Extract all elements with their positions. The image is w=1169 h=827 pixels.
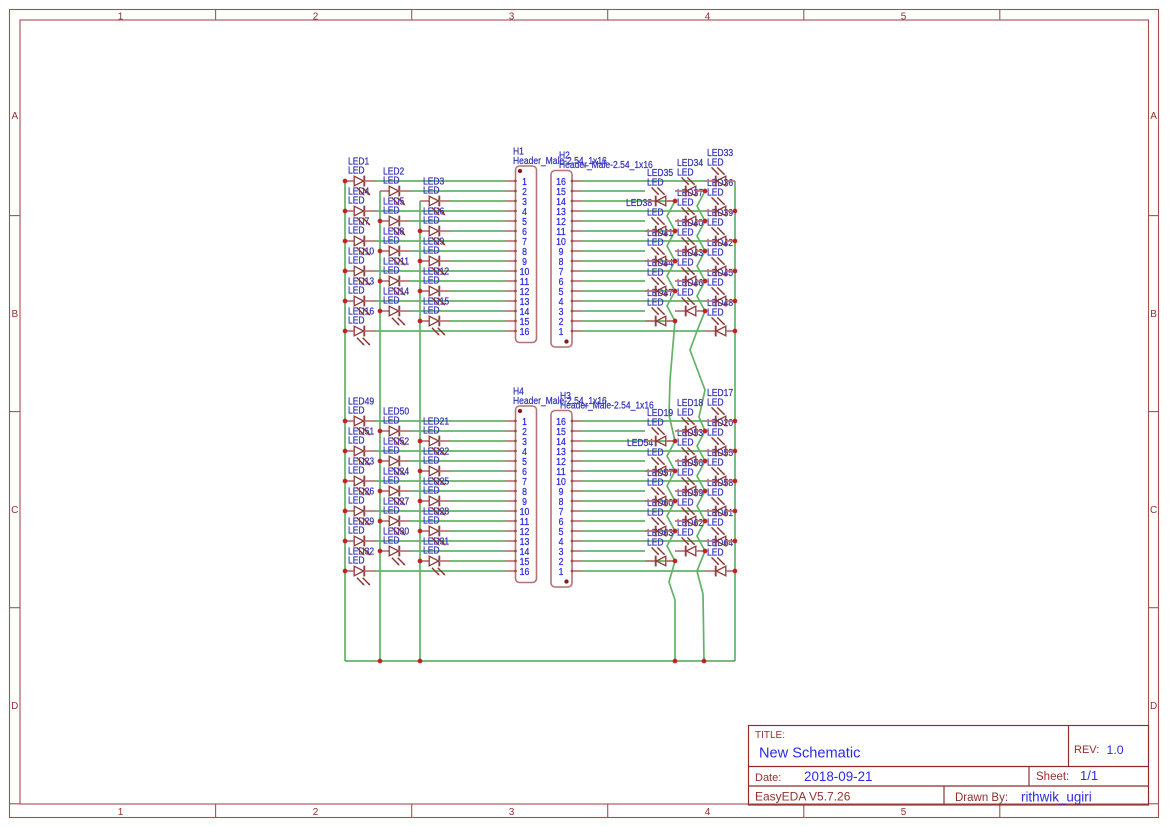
svg-text:LED: LED — [383, 476, 400, 487]
svg-text:8: 8 — [559, 257, 564, 268]
junction col2 bottom pin5 — [378, 459, 383, 464]
junction colA bottom pin14 — [673, 439, 678, 444]
junction col1 top pin4 — [343, 209, 348, 214]
junction col2 top pin11 — [378, 279, 383, 284]
junction col1 bottom pin16 — [343, 569, 348, 574]
svg-text:3: 3 — [559, 547, 564, 558]
svg-text:B: B — [1150, 309, 1157, 320]
svg-text:LED: LED — [383, 236, 400, 247]
svg-text:LED: LED — [677, 288, 694, 299]
junction col3 bottom pin6 — [418, 469, 423, 474]
wire top row pin8 left — [410, 250, 506, 252]
LED LED11 — [380, 256, 410, 295]
wire top row pin2 left — [410, 190, 506, 192]
wire bottom row pin13 left — [375, 540, 506, 542]
LED LED53 — [675, 428, 705, 466]
LED LED13 — [345, 276, 375, 315]
svg-text:3: 3 — [559, 307, 564, 318]
connector H3 Header_Male-2.54_1x16 — [551, 391, 654, 587]
wire bottom row pin8 left — [410, 490, 506, 492]
LED LED30 — [380, 526, 410, 565]
junction colA bottom bus — [673, 659, 678, 664]
svg-text:LED: LED — [383, 446, 400, 457]
svg-text:LED: LED — [677, 258, 694, 269]
svg-text:LED: LED — [707, 428, 724, 439]
svg-text:LED: LED — [707, 188, 724, 199]
wire bottom row pin9 left — [450, 500, 506, 502]
svg-text:15: 15 — [556, 427, 566, 438]
svg-text:16: 16 — [556, 177, 566, 188]
svg-text:REV:: REV: — [1074, 744, 1099, 756]
wire top row pin10 right — [582, 270, 705, 272]
junction col2 bottom bus — [378, 659, 383, 664]
svg-text:LED: LED — [647, 178, 664, 189]
LED LED55 — [705, 448, 735, 486]
wire bottom row pin11 right — [582, 520, 645, 522]
LED LED32 — [345, 546, 375, 585]
svg-text:13: 13 — [556, 447, 566, 458]
svg-text:10: 10 — [556, 477, 566, 488]
junction colC bottom pin1 — [733, 569, 738, 574]
LED LED51 — [345, 426, 375, 465]
svg-text:5: 5 — [901, 11, 907, 22]
wire bottom row pin15 left — [450, 560, 506, 562]
svg-text:1: 1 — [118, 807, 124, 818]
svg-text:LED: LED — [647, 238, 664, 249]
LED LED16 — [345, 306, 375, 345]
svg-text:9: 9 — [559, 247, 564, 258]
junction colC bottom pin13 — [733, 449, 738, 454]
LED LED47 — [645, 288, 675, 326]
svg-text:2: 2 — [313, 11, 319, 22]
junction col2 top pin5 — [378, 219, 383, 224]
junction colA top pin8 — [673, 259, 678, 264]
LED LED26 — [345, 486, 375, 525]
svg-text:1: 1 — [559, 327, 564, 338]
wire top row pin12 left — [450, 290, 506, 292]
junction colC top pin4 — [733, 299, 738, 304]
svg-text:LED: LED — [647, 418, 664, 429]
svg-text:LED: LED — [647, 478, 664, 489]
svg-text:16: 16 — [520, 567, 530, 578]
svg-text:LED: LED — [348, 226, 365, 237]
LED LED46 — [675, 278, 705, 316]
LED LED44 — [645, 258, 675, 296]
svg-text:LED: LED — [423, 306, 440, 317]
junction col3 top pin15 — [418, 319, 423, 324]
LED LED12 — [420, 266, 450, 305]
svg-text:D: D — [1150, 701, 1157, 712]
LED LED25 — [420, 476, 450, 515]
svg-text:C: C — [11, 505, 18, 516]
junction col1 bottom pin1 — [343, 419, 348, 424]
wire bottom row pin2 right — [582, 430, 645, 432]
svg-text:C: C — [1150, 505, 1157, 516]
wire bottom row pin1 right — [582, 420, 705, 422]
svg-text:LED: LED — [677, 168, 694, 179]
svg-text:LED: LED — [348, 256, 365, 267]
LED LED28 — [420, 506, 450, 545]
svg-text:LED: LED — [707, 518, 724, 529]
svg-text:LED: LED — [348, 196, 365, 207]
LED LED36 — [705, 178, 735, 216]
junction colB bottom pin6 — [703, 519, 708, 524]
wire bottom row pin7 right — [582, 480, 705, 482]
wire top row pin7 right — [582, 240, 705, 242]
junction col2 bottom pin2 — [378, 429, 383, 434]
wire bottom row pin6 left — [450, 470, 506, 472]
svg-text:LED: LED — [707, 308, 724, 319]
svg-text:Sheet:: Sheet: — [1036, 771, 1069, 783]
svg-text:8: 8 — [559, 497, 564, 508]
wire top row pin13 right — [582, 300, 705, 302]
wire bottom row pin16 left — [375, 570, 506, 572]
LED LED58 — [705, 478, 735, 516]
wire bottom row pin3 right — [582, 440, 675, 442]
wire top row pin15 left — [450, 320, 506, 322]
LED LED43 — [675, 248, 705, 286]
junction colB top pin9 — [703, 249, 708, 254]
wire bottom row pin5 left — [410, 460, 506, 462]
connector H1 Header_Male-2.54_1x16 — [506, 146, 608, 342]
svg-text:3: 3 — [509, 807, 515, 818]
wire top row pin15 right — [582, 320, 675, 322]
LED LED56 — [675, 458, 705, 496]
junction col1 top pin7 — [343, 239, 348, 244]
svg-text:LED: LED — [707, 488, 724, 499]
junction col2 bottom pin11 — [378, 519, 383, 524]
svg-text:LED: LED — [383, 206, 400, 217]
LED LED48 — [705, 298, 735, 336]
svg-text:LED: LED — [677, 438, 694, 449]
svg-text:LED: LED — [677, 498, 694, 509]
wire bottom bus — [345, 660, 735, 662]
svg-text:LED: LED — [383, 266, 400, 277]
junction colB top pin3 — [703, 309, 708, 314]
wire bottom row pin10 left — [375, 510, 506, 512]
junction colA bottom pin8 — [673, 499, 678, 504]
junction col3 top pin6 — [418, 229, 423, 234]
junction col3 bottom pin12 — [418, 529, 423, 534]
LED LED63 — [645, 528, 675, 566]
svg-text:4: 4 — [705, 11, 711, 22]
LED LED3 — [420, 176, 450, 215]
LED LED14 — [380, 286, 410, 325]
junction colB top pin12 — [703, 219, 708, 224]
wire bottom row pin5 right — [582, 460, 645, 462]
LED LED7 — [345, 216, 375, 255]
wire bottom row pin6 right — [582, 470, 675, 472]
junction col1 bottom pin10 — [343, 509, 348, 514]
svg-text:6: 6 — [559, 277, 564, 288]
wire bottom row pin8 right — [582, 490, 645, 492]
svg-text:LED: LED — [677, 528, 694, 539]
svg-text:7: 7 — [559, 507, 564, 518]
svg-text:13: 13 — [556, 207, 566, 218]
wire bottom row pin14 left — [410, 550, 506, 552]
wire bottom row pin16 right — [582, 570, 705, 572]
svg-text:1/1: 1/1 — [1080, 768, 1098, 783]
wire top row pin14 right — [582, 310, 645, 312]
LED LED60 — [645, 498, 675, 536]
wire top row pin1 right — [582, 180, 705, 182]
LED LED37 — [675, 188, 705, 226]
junction colA top pin5 — [673, 289, 678, 294]
svg-text:LED: LED — [348, 466, 365, 477]
junction colB top pin15 — [703, 189, 708, 194]
svg-text:LED: LED — [647, 208, 664, 219]
LED LED4 — [345, 186, 375, 225]
junction col3 bottom bus — [418, 659, 423, 664]
svg-text:Header_Male-2.54_1x16: Header_Male-2.54_1x16 — [559, 160, 653, 171]
svg-text:1.0: 1.0 — [1107, 743, 1124, 757]
LED LED41 — [645, 228, 675, 266]
junction col3 top pin12 — [418, 289, 423, 294]
wire net bus col1 (left) — [344, 181, 346, 661]
svg-text:LED: LED — [707, 218, 724, 229]
svg-text:LED: LED — [423, 486, 440, 497]
LED LED1 — [345, 156, 375, 195]
svg-text:7: 7 — [559, 267, 564, 278]
svg-text:LED: LED — [348, 316, 365, 327]
LED LED33 — [705, 148, 735, 186]
wire top row pin5 left — [410, 220, 506, 222]
LED LED20 — [705, 418, 735, 456]
svg-text:15: 15 — [556, 187, 566, 198]
svg-text:LED: LED — [707, 398, 724, 409]
LED LED40 — [675, 218, 705, 256]
svg-text:D: D — [11, 701, 18, 712]
junction colA bottom pin5 — [673, 529, 678, 534]
svg-text:LED: LED — [423, 546, 440, 557]
junction colC top pin1 — [733, 329, 738, 334]
LED LED17 — [705, 388, 735, 426]
wire net bus colA (right) — [667, 201, 675, 661]
svg-text:LED: LED — [707, 458, 724, 469]
svg-text:1: 1 — [559, 567, 564, 578]
LED LED35 — [645, 168, 675, 206]
junction colA bottom pin11 — [673, 469, 678, 474]
LED LED45 — [705, 268, 735, 306]
svg-text:LED: LED — [348, 496, 365, 507]
junction colB bottom pin12 — [703, 459, 708, 464]
svg-text:5: 5 — [901, 807, 907, 818]
wire net bus col2 (left) — [379, 191, 381, 661]
wire top row pin14 left — [410, 310, 506, 312]
svg-text:LED: LED — [423, 186, 440, 197]
junction colC bottom pin4 — [733, 539, 738, 544]
junction colA bottom pin2 — [673, 559, 678, 564]
svg-text:New Schematic: New Schematic — [759, 746, 860, 762]
svg-text:LED: LED — [677, 228, 694, 239]
wire top row pin3 left — [450, 200, 506, 202]
svg-text:4: 4 — [705, 807, 711, 818]
junction colB top pin6 — [703, 279, 708, 284]
LED LED15 — [420, 296, 450, 335]
svg-text:5: 5 — [559, 287, 564, 298]
svg-text:Drawn By:: Drawn By: — [955, 792, 1008, 804]
LED LED21 — [420, 416, 450, 455]
junction colA top pin2 — [673, 319, 678, 324]
svg-text:LED: LED — [647, 538, 664, 549]
wire bottom row pin12 right — [582, 530, 675, 532]
wire bottom row pin4 left — [375, 450, 506, 452]
wire bottom row pin3 left — [450, 440, 506, 442]
svg-text:1: 1 — [118, 11, 124, 22]
LED LED38 — [626, 198, 675, 236]
wire top row pin13 left — [375, 300, 506, 302]
LED LED52 — [380, 436, 410, 475]
wire top row pin6 right — [582, 230, 675, 232]
svg-text:LED: LED — [348, 406, 365, 417]
svg-text:4: 4 — [559, 537, 564, 548]
svg-text:LED: LED — [647, 298, 664, 309]
svg-text:5: 5 — [559, 527, 564, 538]
wire top row pin16 right — [582, 330, 705, 332]
wire top row pin6 left — [450, 230, 506, 232]
LED LED34 — [675, 158, 705, 196]
wire bottom row pin12 left — [450, 530, 506, 532]
svg-text:B: B — [11, 309, 18, 320]
svg-text:LED: LED — [383, 536, 400, 547]
junction colB bottom pin9 — [703, 489, 708, 494]
junction col3 bottom pin9 — [418, 499, 423, 504]
svg-text:LED: LED — [383, 296, 400, 307]
title block — [749, 726, 1149, 806]
wire bottom row pin15 right — [582, 560, 675, 562]
junction col1 top pin1 — [343, 179, 348, 184]
junction col1 top pin16 — [343, 329, 348, 334]
junction colC top pin13 — [733, 209, 738, 214]
wire top row pin10 left — [375, 270, 506, 272]
svg-text:16: 16 — [556, 417, 566, 428]
wire top row pin12 right — [582, 290, 675, 292]
wire bottom row pin9 right — [582, 500, 675, 502]
wire top row pin4 left — [375, 210, 506, 212]
svg-text:LED: LED — [707, 248, 724, 259]
wire top row pin8 right — [582, 250, 645, 252]
LED LED39 — [705, 208, 735, 246]
junction col3 bottom pin15 — [418, 559, 423, 564]
wire top row pin5 right — [582, 220, 645, 222]
LED LED57 — [645, 468, 675, 506]
junction col3 top pin9 — [418, 259, 423, 264]
svg-text:12: 12 — [556, 457, 566, 468]
svg-text:LED: LED — [707, 548, 724, 559]
svg-text:LED: LED — [647, 508, 664, 519]
svg-text:LED: LED — [423, 456, 440, 467]
LED LED59 — [675, 488, 705, 526]
LED LED19 — [645, 408, 675, 446]
svg-text:12: 12 — [556, 217, 566, 228]
svg-text:LED: LED — [423, 516, 440, 527]
wire net bus col3 (left) — [419, 201, 421, 661]
wire top row pin9 right — [582, 260, 675, 262]
junction colB bottom pin3 — [703, 549, 708, 554]
svg-text:LED: LED — [383, 506, 400, 517]
LED LED24 — [380, 466, 410, 505]
wire top row pin3 right — [582, 200, 675, 202]
LED LED9 — [420, 236, 450, 275]
svg-text:4: 4 — [559, 297, 564, 308]
wire top row pin2 right — [582, 190, 645, 192]
svg-text:LED: LED — [677, 468, 694, 479]
svg-text:2: 2 — [313, 807, 319, 818]
svg-text:Date:: Date: — [755, 772, 781, 784]
LED LED18 — [675, 398, 705, 436]
LED LED5 — [380, 196, 410, 235]
junction col1 bottom pin4 — [343, 449, 348, 454]
LED LED61 — [705, 508, 735, 546]
svg-text:2: 2 — [559, 317, 564, 328]
svg-text:A: A — [1150, 111, 1157, 122]
wire bottom row pin7 left — [375, 480, 506, 482]
svg-text:LED: LED — [647, 268, 664, 279]
wire bottom row pin14 right — [582, 550, 645, 552]
wire bottom row pin2 left — [410, 430, 506, 432]
junction col1 bottom pin7 — [343, 479, 348, 484]
LED LED64 — [705, 538, 735, 576]
junction col1 top pin10 — [343, 269, 348, 274]
junction col1 bottom pin13 — [343, 539, 348, 544]
junction col2 bottom pin8 — [378, 489, 383, 494]
svg-text:LED: LED — [677, 198, 694, 209]
LED LED2 — [380, 166, 410, 205]
connector H2 Header_Male-2.54_1x16 — [551, 151, 653, 348]
LED LED50 — [380, 406, 410, 445]
svg-text:LED: LED — [383, 176, 400, 187]
svg-text:TITLE:: TITLE: — [755, 730, 785, 741]
svg-text:11: 11 — [556, 467, 566, 478]
svg-text:LED: LED — [423, 216, 440, 227]
LED LED6 — [420, 206, 450, 245]
LED LED62 — [675, 518, 705, 556]
svg-text:rithwik_ugiri: rithwik_ugiri — [1021, 789, 1092, 804]
junction col2 top pin8 — [378, 249, 383, 254]
LED LED54 — [627, 438, 675, 476]
wire bottom row pin11 left — [410, 520, 506, 522]
svg-text:10: 10 — [556, 237, 566, 248]
LED LED23 — [345, 456, 375, 495]
junction colC top pin10 — [733, 239, 738, 244]
svg-text:LED: LED — [348, 166, 365, 177]
svg-text:14: 14 — [556, 197, 566, 208]
LED LED8 — [380, 226, 410, 265]
connector H4 Header_Male-2.54_1x16 — [506, 386, 608, 582]
junction colB bottom pin15 — [703, 429, 708, 434]
wire top row pin11 left — [410, 280, 506, 282]
svg-text:LED: LED — [423, 426, 440, 437]
wire top row pin9 left — [450, 260, 506, 262]
svg-text:A: A — [11, 111, 18, 122]
svg-text:LED: LED — [348, 556, 365, 567]
LED LED31 — [420, 536, 450, 575]
wire bottom row pin4 right — [582, 450, 705, 452]
svg-text:Header_Male-2.54_1x16: Header_Male-2.54_1x16 — [560, 401, 654, 412]
junction colB bottom bus — [702, 659, 707, 664]
LED LED27 — [380, 496, 410, 535]
wire bottom row pin10 right — [582, 510, 705, 512]
LED LED29 — [345, 516, 375, 555]
svg-text:LED: LED — [383, 416, 400, 427]
wire top row pin1 left — [375, 180, 506, 182]
LED LED22 — [420, 446, 450, 485]
svg-text:LED: LED — [423, 246, 440, 257]
svg-text:LED: LED — [348, 286, 365, 297]
wire top row pin16 left — [375, 330, 506, 332]
wire bottom row pin13 right — [582, 540, 705, 542]
junction colC top pin7 — [733, 269, 738, 274]
